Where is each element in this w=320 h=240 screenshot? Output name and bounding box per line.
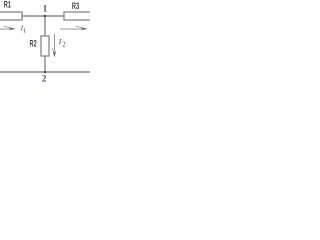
svg-text:2: 2	[42, 73, 47, 83]
svg-text:1: 1	[23, 28, 26, 35]
svg-text:R2: R2	[30, 38, 37, 48]
svg-text:2: 2	[62, 41, 66, 48]
svg-text:1: 1	[43, 4, 48, 14]
svg-text:I: I	[58, 37, 62, 46]
svg-text:R1: R1	[4, 0, 11, 10]
svg-text:R3: R3	[72, 1, 79, 11]
